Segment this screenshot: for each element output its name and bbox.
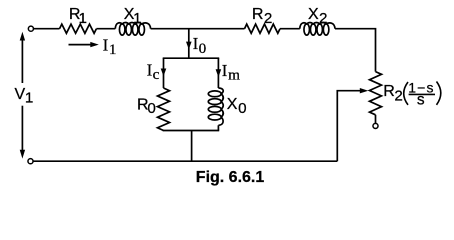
current arrow I1 bbox=[69, 44, 92, 46]
resistor R1 bbox=[60, 24, 97, 33]
current arrow Im bbox=[216, 69, 222, 77]
inductor X1 bbox=[115, 23, 150, 29]
wire rotor resistor to output terminal bbox=[375, 115, 377, 124]
wire R2 to X2 bbox=[280, 28, 300, 30]
wire X2 to top-right corner down to rotor resistor bbox=[335, 29, 376, 72]
terminal input top circle bbox=[28, 26, 33, 31]
wire split bar of magnetizing branch bbox=[163, 57, 220, 59]
wire left branch down to R0 bbox=[163, 58, 165, 88]
wire middle branch to bottom wire bbox=[191, 131, 193, 162]
svg-text:Fig. 6.6.1: Fig. 6.6.1 bbox=[196, 169, 265, 186]
svg-text:s: s bbox=[417, 92, 425, 109]
wire X0 to join bar bbox=[217, 125, 219, 130]
wire join bar of magnetizing branch bbox=[163, 130, 220, 132]
resistor R2 bbox=[245, 24, 281, 33]
wire X1 to R2 through node bbox=[151, 28, 245, 30]
terminal input bottom circle bbox=[28, 159, 33, 164]
arrow wiper into rotor resistor bbox=[360, 88, 369, 93]
resistor R0 bbox=[158, 88, 170, 131]
terminal output circle bbox=[373, 123, 378, 128]
inductor X2 bbox=[300, 23, 335, 29]
current arrow I0 bbox=[186, 42, 192, 50]
wire bottom from terminal to wiper tap bbox=[33, 160, 337, 162]
current arrow Ic bbox=[161, 69, 167, 77]
label R2((1-s)/s) bbox=[383, 80, 441, 109]
voltage arrow V1 up bbox=[21, 40, 23, 83]
wire wiper tap up bbox=[337, 91, 360, 162]
wire right branch down to X0 bbox=[217, 58, 219, 88]
wire top-left from input terminal to R1 bbox=[33, 28, 59, 30]
wire R1 to X1 bbox=[96, 28, 115, 30]
inductor X0 bbox=[218, 88, 223, 125]
voltage arrow V1 down bbox=[21, 106, 23, 150]
node junction I0 branch from top wire bbox=[188, 29, 190, 59]
resistor R2(1-s)/s variable rotor resistance bbox=[370, 72, 382, 115]
